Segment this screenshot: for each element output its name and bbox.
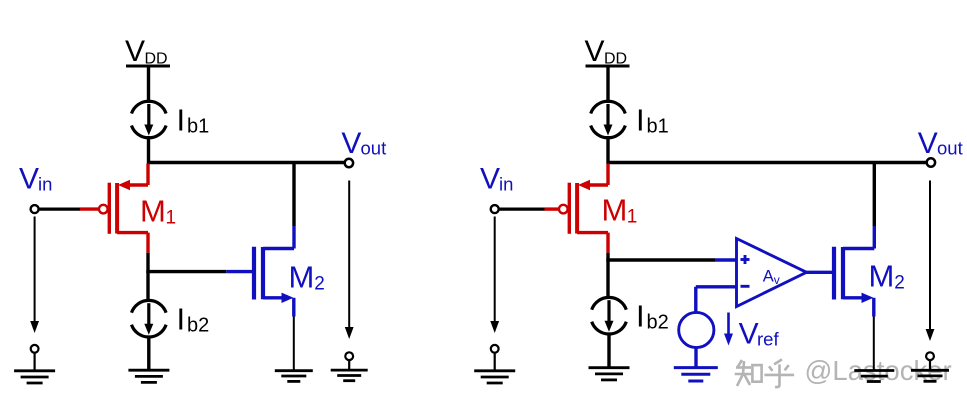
label M2 (left)	[289, 259, 325, 294]
svg-text:1: 1	[627, 207, 638, 228]
wire M2 drain to rail (black, left)	[292, 163, 295, 227]
node output terminal Vout (left)	[345, 159, 353, 167]
label M1 (right)	[602, 193, 638, 228]
transistor M1 PMOS (left)	[80, 180, 148, 253]
svg-text:b2: b2	[187, 315, 209, 337]
svg-text:V: V	[341, 127, 361, 160]
svg-text:I: I	[177, 302, 186, 337]
label M1 (left)	[140, 194, 176, 229]
label Vout (left)	[341, 127, 386, 160]
wire op-amp output to M2 gate (blue, right)	[807, 271, 833, 274]
node output terminal Vout (right)	[927, 158, 935, 166]
svg-text:M: M	[602, 193, 628, 228]
wire Ib2 to ground (left)	[147, 336, 150, 370]
svg-text:V: V	[739, 318, 759, 351]
arrow Vref polarity (blue)	[724, 313, 733, 346]
ground (Ib2, right)	[589, 368, 630, 380]
wire M2 source to ground (thin black, left)	[293, 317, 295, 370]
current source Ib1 (right)	[591, 101, 626, 138]
node input terminal Vin (left)	[31, 205, 39, 213]
svg-text:b1: b1	[647, 116, 669, 138]
wire M1 source to rail (red, left)	[146, 164, 149, 186]
svg-text:b2: b2	[647, 312, 669, 334]
wire VDD to Ib1 (right)	[606, 66, 609, 103]
svg-text:1: 1	[166, 208, 177, 229]
wire M1 drain to node (black, right)	[606, 253, 609, 298]
svg-text:V: V	[918, 127, 938, 160]
label Vin (right)	[480, 163, 513, 196]
label Vin (left)	[19, 163, 52, 196]
svg-text:V: V	[19, 163, 39, 196]
ground (M2, right)	[854, 371, 894, 382]
wire output rail (left)	[149, 161, 345, 164]
label Vref (blue)	[739, 318, 780, 351]
power VDD bar (right)	[586, 65, 630, 68]
svg-text:v: v	[774, 273, 780, 287]
wire Vin terminal to gate (black, right)	[499, 208, 545, 211]
wire M1 drain to node (black, left)	[146, 253, 149, 302]
svg-text:in: in	[499, 174, 513, 195]
op-amp U1 Av (right)	[737, 239, 807, 307]
wire terminal to ground (Vout, left)	[348, 360, 350, 369]
label Ib2 (right)	[636, 299, 669, 334]
wire M2 source to ground (thin black, right)	[873, 317, 875, 370]
svg-text:V: V	[125, 35, 145, 68]
label Ib2 (left)	[177, 302, 210, 337]
svg-text:M: M	[869, 259, 895, 294]
node terminal above ground (Vin, right)	[491, 345, 499, 353]
wire Vin terminal to gate (black, left)	[39, 208, 80, 211]
label Vout (right)	[918, 127, 963, 160]
svg-text:V: V	[480, 163, 500, 196]
wire Ib2 to ground (right)	[607, 333, 610, 367]
wire Vref to ground (right)	[694, 348, 697, 367]
power VDD bar (left)	[126, 65, 170, 68]
label M2 (right)	[869, 259, 905, 294]
wire node to op-amp plus input (blue part, right)	[715, 258, 736, 261]
node terminal above ground (Vout, right)	[926, 352, 934, 360]
label Ib1 (left)	[177, 103, 210, 138]
svg-text:ref: ref	[757, 329, 779, 350]
arrow Vout measurement (right)	[926, 181, 935, 342]
power VDD label (left)	[125, 35, 168, 68]
arrow Vin measurement (left)	[30, 217, 39, 334]
wire op-amp minus input (blue, right)	[696, 287, 736, 312]
arrow Vout measurement (left)	[345, 181, 354, 340]
wire M2 drain to rail (black, right)	[873, 163, 876, 227]
ground (M2, left)	[275, 371, 313, 382]
svg-text:2: 2	[314, 273, 325, 294]
wire node to M2 gate (blue part, left)	[226, 270, 252, 273]
svg-text:I: I	[177, 103, 186, 138]
node input terminal Vin (right)	[491, 205, 499, 213]
ground (Vin, right)	[474, 371, 515, 383]
svg-text:I: I	[636, 103, 645, 138]
svg-text:b1: b1	[187, 116, 209, 138]
svg-text:I: I	[636, 299, 645, 334]
ground (Ib2, left)	[128, 370, 169, 382]
ground (Vref, blue)	[674, 368, 718, 381]
svg-text:M: M	[140, 194, 166, 229]
wire terminal to ground (Vin, right)	[494, 353, 496, 370]
current source Ib1 (left)	[132, 101, 167, 138]
ground (Vout, right)	[911, 370, 949, 381]
wire M1 source to rail (red, right)	[606, 164, 609, 186]
wire VDD to Ib1 (left)	[147, 66, 150, 103]
ground (Vout, left)	[331, 370, 368, 381]
wire output rail (right)	[608, 161, 927, 164]
transistor M2 NMOS (left)	[254, 226, 294, 317]
voltage source Vref (right)	[679, 312, 714, 347]
power VDD label (right)	[585, 35, 628, 68]
svg-text:out: out	[937, 138, 963, 159]
svg-text:A: A	[763, 268, 774, 286]
svg-text:2: 2	[894, 273, 905, 294]
wire Ib1 to output rail (left)	[147, 136, 150, 164]
svg-text:M: M	[289, 259, 315, 294]
wire node to op-amp plus input (black, right)	[606, 258, 715, 261]
label Av (op-amp gain)	[763, 268, 780, 288]
transistor M2 NMOS (right)	[834, 226, 874, 317]
node terminal above ground (Vin, left)	[31, 345, 39, 353]
wire terminal to ground (Vout, right)	[929, 360, 931, 369]
svg-text:in: in	[38, 174, 52, 195]
watermark 知乎 @Lastocker	[735, 359, 794, 387]
svg-text:V: V	[585, 35, 605, 68]
svg-text:out: out	[361, 138, 387, 159]
current source Ib2 (left)	[132, 300, 167, 337]
transistor M1 PMOS (right)	[545, 180, 609, 253]
current source Ib2 (right)	[592, 297, 627, 334]
wire node to M2 gate (black part, left)	[146, 270, 226, 273]
label Ib1 (right)	[636, 103, 669, 138]
wire Ib1 to output rail (right)	[606, 136, 609, 164]
arrow Vin measurement (right)	[490, 217, 499, 334]
ground (Vin, left)	[14, 371, 55, 383]
wire terminal to ground (Vin, left)	[33, 353, 35, 370]
node terminal above ground (Vout, left)	[345, 352, 353, 360]
